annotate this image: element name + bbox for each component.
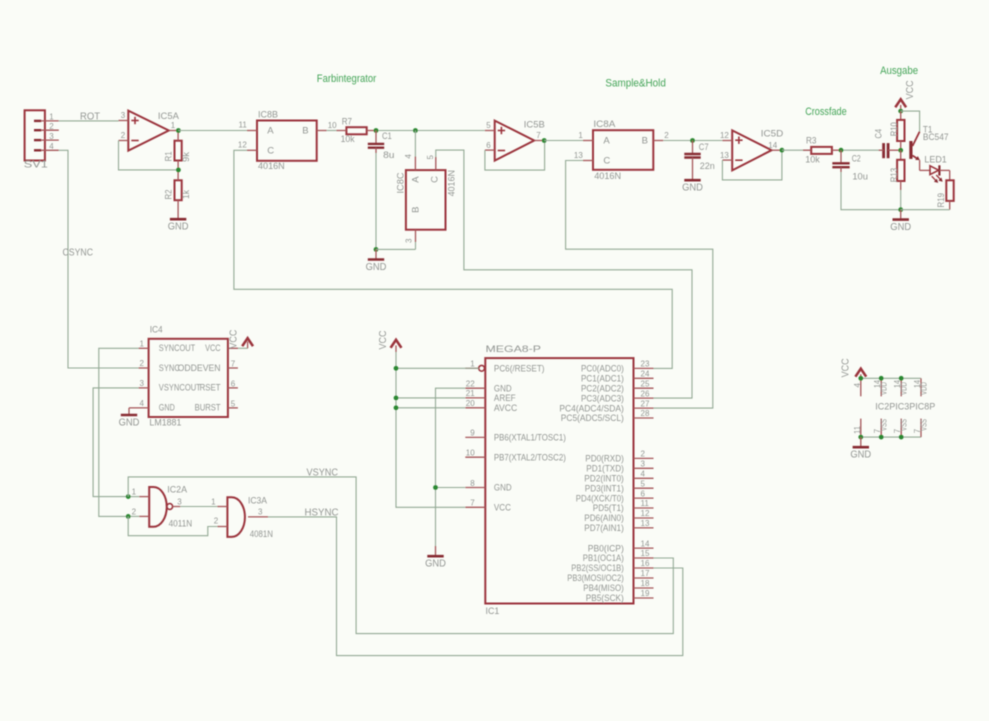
svg-text:9k: 9k <box>181 152 192 162</box>
svg-text:24: 24 <box>641 370 650 379</box>
svg-text:CSYNC: CSYNC <box>63 247 94 258</box>
svg-text:6: 6 <box>231 379 236 388</box>
svg-text:IC3A: IC3A <box>248 496 268 507</box>
svg-text:4016N: 4016N <box>594 171 621 182</box>
svg-text:IC5A: IC5A <box>158 111 180 122</box>
svg-text:5: 5 <box>426 155 435 160</box>
svg-text:GND: GND <box>682 183 703 194</box>
svg-text:VDD: VDD <box>880 382 889 395</box>
svg-text:VCC: VCC <box>229 330 240 349</box>
svg-text:28: 28 <box>641 409 650 418</box>
svg-text:PB7(XTAL2/TOSC2): PB7(XTAL2/TOSC2) <box>494 452 566 463</box>
svg-text:10k: 10k <box>341 134 355 145</box>
svg-text:R10: R10 <box>889 122 900 136</box>
svg-text:3: 3 <box>258 508 263 517</box>
svg-text:VSS: VSS <box>900 419 909 431</box>
svg-text:VDD: VDD <box>919 382 928 395</box>
svg-text:4016N: 4016N <box>258 161 285 172</box>
svg-text:2: 2 <box>132 507 137 516</box>
svg-text:PC6(/RESET): PC6(/RESET) <box>494 364 545 375</box>
svg-text:SYNCOUT: SYNCOUT <box>159 343 196 354</box>
svg-text:GND: GND <box>850 450 871 461</box>
svg-text:C: C <box>267 145 274 156</box>
svg-text:IC8B: IC8B <box>258 109 278 120</box>
svg-text:R3: R3 <box>806 135 817 146</box>
svg-text:BURST: BURST <box>195 403 221 414</box>
svg-text:R13: R13 <box>889 168 900 183</box>
svg-text:4: 4 <box>140 399 145 408</box>
svg-text:25: 25 <box>641 379 650 388</box>
svg-text:ODDEVEN: ODDEVEN <box>178 363 221 374</box>
svg-text:SV1: SV1 <box>24 160 49 171</box>
svg-text:2: 2 <box>641 450 646 459</box>
svg-text:12: 12 <box>641 509 650 518</box>
svg-text:9: 9 <box>470 429 475 438</box>
svg-text:VSS: VSS <box>880 419 889 431</box>
svg-text:13: 13 <box>720 151 729 160</box>
svg-text:PB5(SCK): PB5(SCK) <box>586 593 624 604</box>
svg-text:R19: R19 <box>936 193 947 208</box>
svg-text:RSET: RSET <box>200 383 221 394</box>
svg-text:8: 8 <box>470 479 475 488</box>
svg-text:5: 5 <box>641 479 646 488</box>
svg-text:VCC: VCC <box>378 331 389 350</box>
svg-text:PB6(XTAL1/TOSC1): PB6(XTAL1/TOSC1) <box>494 433 566 444</box>
svg-text:IC3P: IC3P <box>895 402 915 413</box>
svg-text:7: 7 <box>536 131 541 140</box>
svg-text:7: 7 <box>470 499 475 508</box>
svg-text:5: 5 <box>231 399 236 408</box>
svg-text:Sample&Hold: Sample&Hold <box>605 77 666 89</box>
svg-text:22n: 22n <box>700 161 715 172</box>
svg-text:2: 2 <box>121 131 126 140</box>
svg-text:B: B <box>302 125 308 136</box>
svg-text:C2: C2 <box>852 153 861 164</box>
svg-text:1: 1 <box>171 121 176 130</box>
svg-text:20: 20 <box>466 399 475 408</box>
svg-text:VCC: VCC <box>205 343 221 354</box>
svg-text:3: 3 <box>140 379 145 388</box>
svg-text:VDD: VDD <box>900 382 909 395</box>
svg-text:2: 2 <box>664 131 669 140</box>
svg-text:23: 23 <box>641 360 650 369</box>
svg-text:PD7(AIN1): PD7(AIN1) <box>584 523 624 534</box>
svg-text:MEGA8-P: MEGA8-P <box>486 344 542 355</box>
svg-text:18: 18 <box>641 579 650 588</box>
svg-text:1k: 1k <box>181 190 192 199</box>
svg-text:C: C <box>430 176 441 183</box>
svg-text:A: A <box>410 176 421 183</box>
svg-text:19: 19 <box>641 589 650 598</box>
svg-text:HSYNC: HSYNC <box>305 508 339 519</box>
svg-text:IC8C: IC8C <box>395 172 406 193</box>
svg-text:16: 16 <box>641 559 650 568</box>
svg-text:IC5D: IC5D <box>761 129 784 140</box>
svg-text:15: 15 <box>641 549 650 558</box>
svg-text:1: 1 <box>211 498 216 507</box>
svg-text:10u: 10u <box>852 171 868 182</box>
svg-text:17: 17 <box>641 569 650 578</box>
svg-text:BC547: BC547 <box>923 132 949 143</box>
svg-text:Crossfade: Crossfade <box>805 106 847 118</box>
svg-text:4: 4 <box>641 470 646 479</box>
svg-text:11: 11 <box>641 499 650 508</box>
svg-text:LED1: LED1 <box>924 155 946 166</box>
svg-text:3: 3 <box>121 111 126 120</box>
svg-text:22: 22 <box>466 380 475 389</box>
svg-text:IC2A: IC2A <box>167 484 187 495</box>
svg-text:3: 3 <box>177 498 182 507</box>
svg-text:IC2P: IC2P <box>875 402 895 413</box>
svg-text:VCC: VCC <box>905 80 916 99</box>
svg-text:4081N: 4081N <box>250 529 273 540</box>
svg-text:IC4: IC4 <box>150 324 163 335</box>
svg-text:3: 3 <box>405 238 414 243</box>
svg-text:14: 14 <box>768 141 777 150</box>
svg-text:2: 2 <box>214 517 219 526</box>
svg-text:B: B <box>642 136 648 147</box>
svg-text:10k: 10k <box>805 154 820 165</box>
svg-text:14: 14 <box>641 539 650 548</box>
svg-text:4: 4 <box>49 142 54 151</box>
svg-text:Farbintegrator: Farbintegrator <box>317 73 377 85</box>
svg-text:VCC: VCC <box>840 358 851 377</box>
svg-text:A: A <box>267 125 274 136</box>
svg-text:11: 11 <box>238 121 247 130</box>
svg-text:7: 7 <box>231 359 236 368</box>
svg-text:AVCC: AVCC <box>494 403 517 414</box>
svg-text:GND: GND <box>425 559 446 570</box>
svg-text:R1: R1 <box>163 151 174 161</box>
svg-text:GND: GND <box>890 222 911 233</box>
svg-text:1: 1 <box>49 113 54 122</box>
svg-text:IC1: IC1 <box>486 606 500 617</box>
svg-text:Ausgabe: Ausgabe <box>880 65 918 77</box>
svg-text:R2: R2 <box>163 190 174 200</box>
svg-text:GND: GND <box>159 403 175 414</box>
svg-text:27: 27 <box>641 399 650 408</box>
svg-text:IC8P: IC8P <box>915 402 935 413</box>
svg-text:1: 1 <box>132 488 137 497</box>
svg-text:11: 11 <box>853 425 862 434</box>
svg-text:10: 10 <box>466 449 475 458</box>
svg-text:21: 21 <box>466 389 475 398</box>
svg-text:R7: R7 <box>342 117 352 128</box>
svg-text:VSYNCOUT: VSYNCOUT <box>159 383 201 394</box>
svg-text:GND: GND <box>119 417 140 428</box>
svg-text:13: 13 <box>574 151 583 160</box>
svg-text:10: 10 <box>328 121 337 130</box>
svg-text:3: 3 <box>49 132 54 141</box>
svg-text:GND: GND <box>168 222 189 233</box>
svg-text:6: 6 <box>641 489 646 498</box>
svg-text:2: 2 <box>49 122 54 131</box>
svg-text:LM1881: LM1881 <box>149 418 181 429</box>
svg-text:12: 12 <box>238 141 247 150</box>
svg-text:12: 12 <box>720 131 729 140</box>
svg-text:C: C <box>603 156 610 167</box>
svg-text:A: A <box>603 136 610 147</box>
svg-text:C4: C4 <box>874 129 885 139</box>
svg-text:26: 26 <box>641 389 650 398</box>
svg-text:IC5B: IC5B <box>524 120 545 131</box>
svg-text:VCC: VCC <box>494 503 511 514</box>
svg-text:B: B <box>410 207 421 213</box>
svg-text:C1: C1 <box>382 131 392 142</box>
svg-text:5: 5 <box>486 121 491 130</box>
svg-text:IC8A: IC8A <box>593 119 616 130</box>
svg-text:1: 1 <box>140 340 145 349</box>
svg-text:13: 13 <box>641 519 650 528</box>
svg-text:GND: GND <box>366 262 387 273</box>
svg-text:GND: GND <box>494 483 512 494</box>
svg-text:C7: C7 <box>699 142 709 153</box>
svg-text:4: 4 <box>853 383 862 388</box>
svg-text:4016N: 4016N <box>446 170 457 196</box>
svg-text:4: 4 <box>404 154 413 159</box>
svg-text:1: 1 <box>578 131 583 140</box>
svg-text:8u: 8u <box>383 150 394 161</box>
svg-text:PC5(ADC5/SCL): PC5(ADC5/SCL) <box>561 413 624 424</box>
svg-text:VSYNC: VSYNC <box>307 468 339 479</box>
svg-text:6: 6 <box>486 141 491 150</box>
svg-text:3: 3 <box>641 460 646 469</box>
svg-text:1: 1 <box>470 360 475 369</box>
svg-text:VSS: VSS <box>919 419 928 431</box>
svg-text:2: 2 <box>140 359 145 368</box>
svg-text:4011N: 4011N <box>169 519 193 530</box>
